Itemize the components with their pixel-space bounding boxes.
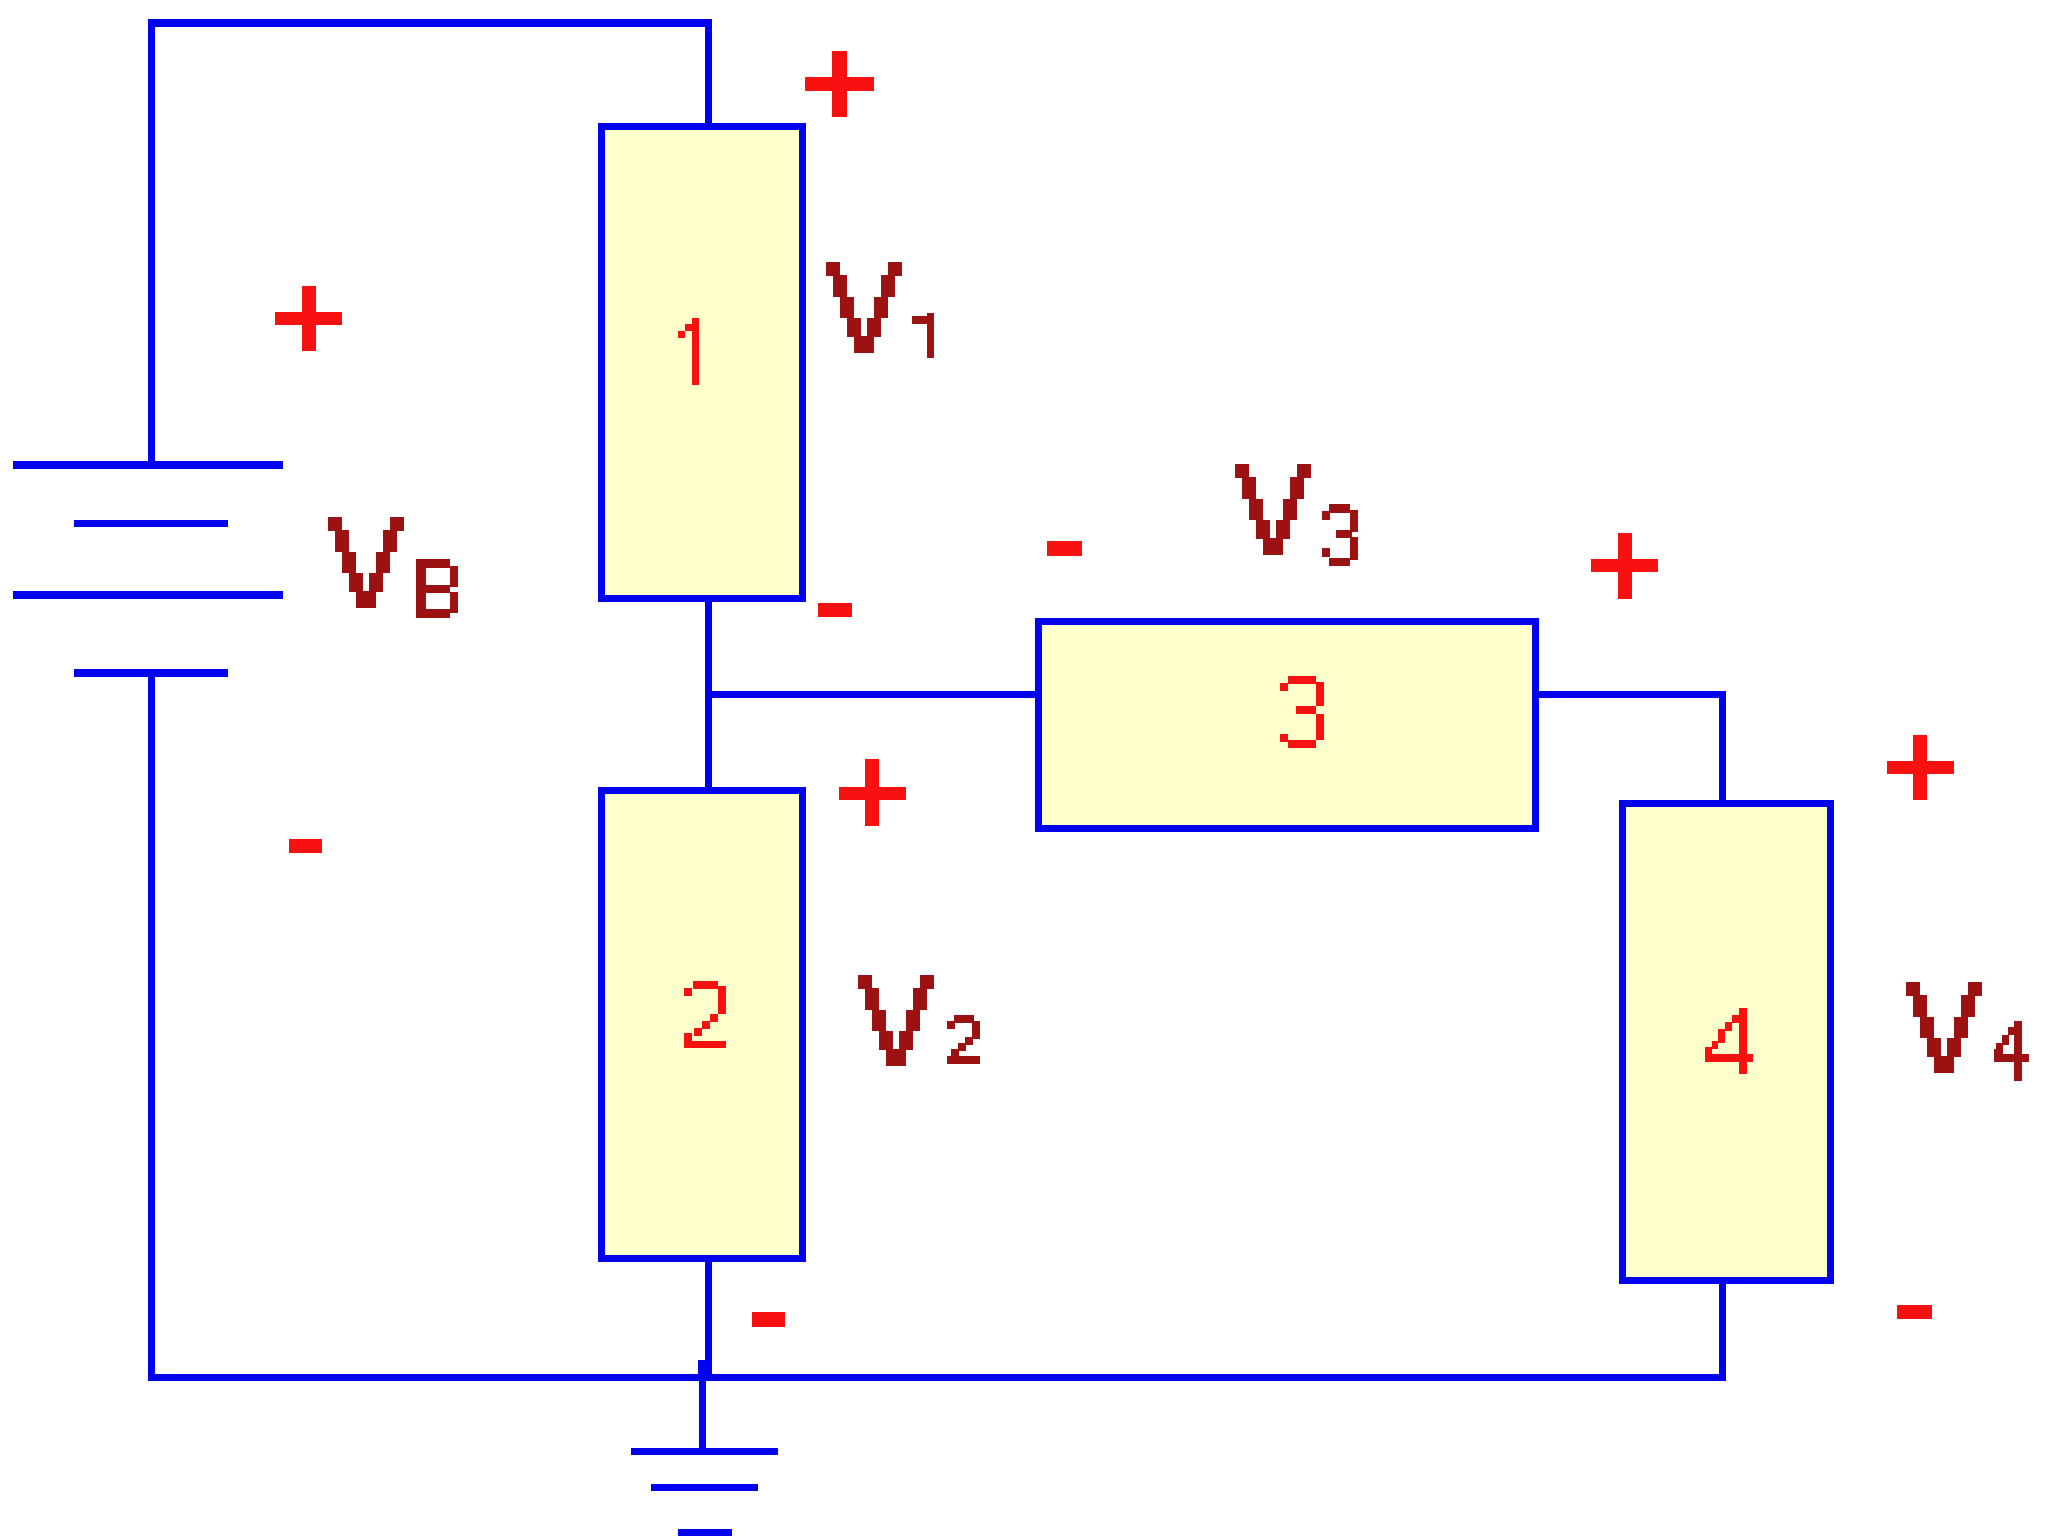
resistor 2 body <box>602 791 803 1259</box>
label VB: letter V <box>328 517 404 608</box>
label: digit 4 inside resistor 4 <box>1705 1008 1753 1074</box>
label V2: letter V <box>858 975 934 1066</box>
wire: R2 bottom lead to bottom rail <box>705 1262 712 1381</box>
wire: R3 right to corner above R4 <box>1539 691 1726 698</box>
label VB: subscript B <box>416 559 458 618</box>
polarity + of V4 <box>1887 735 1954 800</box>
label: digit 2 inside resistor 2 <box>684 981 726 1048</box>
resistor 1 body <box>602 127 803 599</box>
label V3: subscript 3 <box>1322 504 1358 566</box>
label V4: letter V <box>1906 982 1982 1073</box>
polarity - of VB <box>289 839 322 853</box>
wire: top rail from battery + to R1 top <box>148 19 712 27</box>
polarity - of V4 <box>1897 1305 1932 1319</box>
wire: bottom rail (ground net) <box>148 1374 1726 1381</box>
label V3: letter V <box>1235 464 1311 555</box>
ground bar 3 <box>678 1529 732 1536</box>
wire: node A to R3 left <box>705 691 1036 698</box>
polarity + of V3 <box>1591 533 1658 599</box>
wire: left vertical from top rail down to battery + plate <box>148 19 155 465</box>
battery VB plate 2 (short) <box>74 520 228 527</box>
wire: corner down to R4 top <box>1719 691 1726 801</box>
polarity - of V2 <box>752 1312 785 1327</box>
wire: R1 top lead <box>705 19 712 123</box>
label V4: subscript 4 <box>1994 1021 2029 1081</box>
battery VB plate 1 (long, +) <box>13 461 283 469</box>
junction node on bottom rail at ground <box>698 1360 712 1381</box>
label: digit 3 inside resistor 3 <box>1280 676 1324 748</box>
label: digit 1 inside resistor 1 <box>678 318 699 385</box>
resistor 3 body <box>1039 622 1536 829</box>
polarity + of V2 <box>839 759 906 826</box>
ground bar 1 <box>631 1448 778 1455</box>
battery VB plate 3 (long) <box>13 591 283 599</box>
label V2: subscript 2 <box>947 1015 980 1064</box>
polarity + of V1 <box>805 51 874 117</box>
wire: R1 bottom to node A and R2 top <box>705 602 712 788</box>
resistor 4 body <box>1623 804 1831 1281</box>
ground stem <box>699 1381 706 1448</box>
wire: battery - down to bottom rail <box>148 673 155 1381</box>
ground bar 2 <box>651 1484 758 1491</box>
polarity - of V3 <box>1047 541 1082 556</box>
polarity + of VB <box>275 286 342 351</box>
battery VB plate 4 (short, -) <box>74 669 228 677</box>
polarity - of V1 <box>818 603 852 617</box>
label V1: letter V <box>826 262 902 353</box>
label V1: subscript 1 <box>912 313 934 358</box>
wire: R4 bottom lead to bottom rail <box>1719 1284 1726 1381</box>
